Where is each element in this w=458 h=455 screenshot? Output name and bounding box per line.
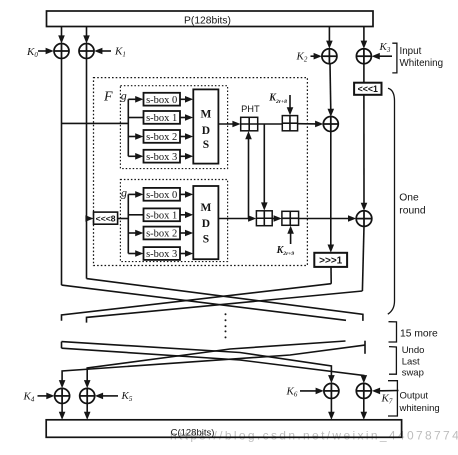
svg-text:s-box 1: s-box 1 [146,113,177,124]
MDS matrix U1 [193,89,218,163]
svg-text:K3: K3 [379,41,391,54]
svg-text:g: g [121,89,127,103]
wire adder B2 out with arrow into round xor X2 [299,215,357,222]
MDS matrix U2 [193,186,218,259]
label Output whitening [399,391,440,414]
svg-text:Last: Last [402,357,420,368]
svg-text:K6: K6 [286,386,298,399]
svg-text:s-box 3: s-box 3 [146,152,177,163]
xor K7 [356,383,371,398]
wire into s-box 1 (g2) [128,214,143,216]
svg-text:K4: K4 [23,390,35,403]
s-box 0 (g2) [144,188,181,201]
plaintext box P [47,11,374,27]
wire lower branch up into PHT adder A1 with arrow [245,131,252,219]
wire xor X2 down to swap [362,226,364,291]
label Undo Last swap [402,345,425,378]
lower adder B1 (box plus) [256,211,272,226]
wire MDS1 out with arrow into PHT adder [218,121,240,128]
label K2 with input arrow [296,51,322,64]
bracket output whitening [388,381,397,416]
wire word2: XOR K2 down to round XOR with arrow [328,64,335,117]
xor K1 [79,44,94,59]
g2 dotted box [120,180,227,262]
label K4 with input arrow [23,390,55,403]
arrow into s-box 3 (g1) [128,153,143,160]
undo swap diagonal word3 to word0 with arrow into xor K4 [59,345,365,388]
svg-text:s-box 3: s-box 3 [146,249,177,260]
key adder A2 (box plus) [282,116,297,131]
arrow into s-box 3 (g2) [128,250,143,257]
svg-text:s-box 2: s-box 2 [146,229,177,240]
wire xor X1 down with arrow into ror1 box [328,132,335,253]
wire word0 branch into g1 [62,122,129,124]
svg-text:F: F [103,90,113,105]
label K2r+9 with up arrow [276,226,295,258]
wire P to XOR K0 with arrow [58,27,65,44]
svg-text:D: D [202,218,210,230]
xor K0 [54,44,69,59]
svg-text:<<<8: <<<8 [96,214,116,224]
svg-text:s-box 0: s-box 0 [146,95,177,106]
s-box 3 (g1) [144,150,181,163]
g2 fan vertical [127,194,129,253]
key adder B2 (box plus) [282,211,299,225]
label K1 with input arrow [94,45,126,58]
svg-text:S: S [203,139,209,151]
svg-text:Input: Input [400,46,422,57]
wire rol1 down to xor X2 with arrow [361,95,368,211]
svg-text:Undo: Undo [402,345,425,356]
svg-text:swap: swap [402,368,424,379]
wire word1 column down [86,59,88,279]
wire B1 out with arrow into key adder B2 [272,215,282,222]
arrows s-boxes (g1) into MDS1 [180,96,193,160]
s-box 1 (g1) [144,111,181,124]
svg-text:K0: K0 [26,46,38,59]
bracket one round [388,88,395,314]
label Input Whitening [400,46,444,69]
bracket input whitening [392,43,397,73]
svg-text:s-box 1: s-box 1 [146,211,177,222]
PHT adder A1 (box plus) [241,117,258,131]
s-box 2 (g1) [144,130,181,143]
label K7 with input arrow [372,388,399,406]
svg-text:M: M [200,202,211,214]
svg-text:K7: K7 [381,392,393,405]
xor K2 [322,49,337,64]
arrow into xor K5 [84,380,91,388]
svg-text:C(128bits): C(128bits) [171,427,215,438]
wire xor K6 to C with arrow [328,398,335,420]
ciphertext box C [46,420,401,439]
svg-text:<<<1: <<<1 [358,84,378,94]
s-box 2 (g2) [144,227,181,240]
undo swap diagonal A with arrow into xor K6 [62,342,335,384]
wire word3: XOR K3 down to rotate box [363,64,365,83]
xor K3 [356,49,371,64]
svg-text:Whitening: Whitening [400,58,444,69]
label K5 with input arrow [95,390,133,403]
svg-text:s-box 0: s-box 0 [146,190,177,201]
arrow into s-box 2 (g1) [128,133,143,140]
rotate right 1 box [314,253,347,267]
svg-text:K1: K1 [114,45,126,58]
svg-text:S: S [203,234,209,246]
svg-text:D: D [202,125,210,137]
label K3 with input arrow [372,41,392,60]
bracket 15 more [389,322,397,342]
wire xor K4 to C with arrow [59,403,66,420]
undo swap stub word3 [364,341,366,354]
arrow into s-box 0 (g1) [128,96,143,103]
wire P to XOR K1 with arrow [83,27,90,44]
svg-text:>>>1: >>>1 [319,256,343,267]
svg-text:PHT: PHT [241,104,260,114]
s-box 3 (g2) [144,247,181,260]
arrow into s-box 2 (g2) [128,230,143,237]
s-box 0 (g1) [144,93,181,106]
bracket undo last swap [389,347,396,375]
svg-text:15 more: 15 more [400,329,438,340]
g1 dotted box [120,86,227,169]
arrows s-boxes (g2) into MDS2 [180,191,193,257]
xor K6 [324,383,339,398]
F function dashed box [94,78,308,266]
label K2r+8 with down arrow [268,93,293,116]
arrow into s-box 0 (g2) [128,191,143,198]
swap diagonal word2 across [62,284,332,321]
xor K4 [55,388,70,403]
label K6 with input arrow [286,386,324,399]
svg-text:K2r+8: K2r+8 [268,93,287,105]
ellipsis 15 rounds [225,313,227,338]
wire xor K5 to C with arrow [84,403,91,420]
xor K5 [80,388,95,403]
swap diagonal word1 across [87,279,363,321]
wire MDS2 out with arrow into lower adder B1 [218,215,256,222]
wire P to XOR K3 with arrow [361,27,368,49]
svg-text:M: M [200,109,211,121]
wire PHT A1 out to key adder A2 [258,123,283,125]
swap diagonal word0 across [62,285,347,320]
svg-text:s-box 2: s-box 2 [146,132,177,143]
label K0 with input arrow [26,46,54,59]
wire word1 branch with arrow into rol8 box [85,215,93,222]
wire branch down into lower adder B1 with arrow [261,124,268,211]
xor X1 (round xor word2) [323,117,338,132]
swap diagonal word3 across [87,291,363,323]
s-box 1 (g2) [144,208,181,221]
svg-text:K2: K2 [296,51,308,64]
xor X2 (round xor word3) [356,211,372,227]
svg-text:K2r+9: K2r+9 [276,245,295,257]
wire rol8 to g2 fan [118,218,129,220]
svg-text:whitening: whitening [399,403,440,414]
wire P to XOR K2 with arrow [326,27,333,49]
rotate left 1 box [354,83,381,95]
wire word0 column down [61,59,63,286]
svg-text:One: One [399,193,419,204]
wire xor K7 to C with arrow [361,398,368,420]
wire adder A2 out with arrow into round xor X1 [298,121,324,128]
svg-text:Output: Output [400,391,429,402]
rotate left 8 box [94,212,118,224]
wire into s-box 1 (g1) [128,117,143,119]
svg-text:g: g [121,186,127,200]
svg-text:K5: K5 [121,390,133,403]
svg-text:P(128bits): P(128bits) [184,15,231,26]
svg-text:round: round [399,206,426,217]
undo swap diagonal B with arrow into xor K7 [62,348,368,383]
undo swap stub word0 [61,342,63,349]
undo swap blunt line from word3 stub [87,341,345,382]
label One round [399,193,426,217]
g1 fan vertical [127,99,129,156]
wire ror1 down to swap [330,267,332,284]
